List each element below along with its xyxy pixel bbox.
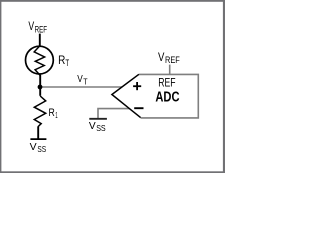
svg-text:T: T bbox=[83, 76, 87, 86]
svg-text:R: R bbox=[49, 107, 55, 119]
svg-text:V: V bbox=[30, 141, 37, 153]
svg-text:1: 1 bbox=[55, 110, 58, 120]
svg-text:ADC: ADC bbox=[155, 89, 179, 105]
svg-text:REF: REF bbox=[158, 75, 175, 89]
svg-text:R: R bbox=[58, 53, 65, 67]
svg-text:T: T bbox=[65, 58, 69, 68]
svg-text:SS: SS bbox=[37, 144, 46, 154]
svg-text:V: V bbox=[77, 73, 83, 85]
svg-text:V: V bbox=[89, 120, 96, 132]
svg-text:REF: REF bbox=[165, 55, 180, 65]
svg-text:SS: SS bbox=[96, 123, 106, 133]
svg-text:REF: REF bbox=[35, 24, 48, 34]
svg-text:V: V bbox=[158, 50, 164, 64]
